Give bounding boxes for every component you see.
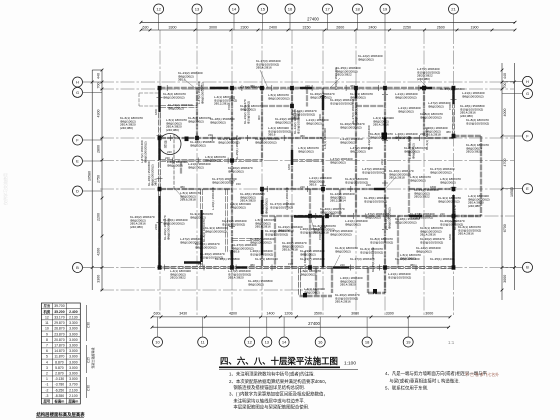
svg-text:3.000: 3.000: [69, 349, 78, 353]
svg-text:4000: 4000: [503, 109, 507, 117]
svg-text:Φ8@100(2): Φ8@100(2): [248, 282, 264, 286]
svg-text:2800: 2800: [97, 145, 101, 153]
svg-text:380: 380: [180, 185, 185, 189]
svg-text:2Φ14;3Φ20: 2Φ14;3Φ20: [228, 276, 244, 280]
svg-text:380: 380: [300, 134, 305, 138]
svg-text:机房: 机房: [44, 309, 51, 314]
svg-text:Φ8@100(2): Φ8@100(2): [188, 119, 204, 123]
svg-text:1200: 1200: [284, 312, 292, 316]
wire shear wall thick segments: [160, 88, 454, 268]
svg-text:440: 440: [97, 73, 101, 79]
svg-text:(240;380): (240;380): [120, 126, 133, 130]
svg-text:Φ8@100(2): Φ8@100(2): [188, 165, 204, 169]
svg-text:3000: 3000: [425, 312, 433, 316]
svg-text:钢筋连接及搭接锚固详见结构总说明.: 钢筋连接及搭接锚固详见结构总说明.: [229, 384, 305, 391]
wire building outline walls: [159, 87, 482, 268]
svg-text:2400: 2400: [154, 223, 158, 230]
svg-text:14: 14: [282, 339, 287, 344]
svg-text:11: 11: [201, 339, 206, 344]
svg-text:Φ8@200(2): Φ8@200(2): [190, 215, 206, 219]
svg-text:Φ8@100/200(2): Φ8@100/200(2): [395, 95, 417, 99]
svg-text:Φ8@100(2): Φ8@100(2): [330, 160, 346, 164]
svg-text:Φ8@100/200(2): Φ8@100/200(2): [268, 96, 290, 100]
svg-text:Φ8@200(2): Φ8@200(2): [275, 120, 291, 124]
svg-text:KL-35(1) 180X400: KL-35(1) 180X400: [430, 257, 455, 261]
svg-text:Φ10@100/200(2): Φ10@100/200(2): [246, 101, 250, 124]
svg-text:KL-6(1) 180X470: KL-6(1) 180X470: [425, 127, 429, 150]
svg-text:Φ8@100/200(2): Φ8@100/200(2): [166, 218, 170, 240]
svg-text:240: 240: [420, 132, 425, 136]
node detail callout circle: [159, 134, 189, 190]
svg-text:13: 13: [195, 6, 200, 11]
svg-text:3.000: 3.000: [69, 338, 78, 342]
svg-text:Φ10@100/200(2): Φ10@100/200(2): [345, 180, 368, 184]
svg-text:3.000: 3.000: [69, 327, 78, 331]
svg-text:1800: 1800: [448, 233, 452, 240]
svg-text:3.000: 3.000: [69, 332, 78, 336]
svg-text:Φ8@200(2): Φ8@200(2): [168, 106, 184, 110]
svg-text:L-30(1) 180X400: L-30(1) 180X400: [334, 67, 338, 90]
svg-text:-2: -2: [45, 388, 48, 392]
svg-text:27400: 27400: [308, 321, 320, 326]
svg-text:E: E: [526, 186, 529, 191]
svg-text:240: 240: [366, 183, 371, 187]
svg-text:(240;380): (240;380): [130, 225, 143, 229]
svg-text:Φ8@100(2): Φ8@100(2): [370, 135, 386, 139]
svg-text:Φ8@200(2): Φ8@200(2): [440, 180, 456, 184]
svg-text:Φ10@100/200(2): Φ10@100/200(2): [296, 111, 300, 134]
node column blobs: [158, 86, 456, 298]
svg-text:19: 19: [406, 339, 411, 344]
svg-text:Φ8@100(2): Φ8@100(2): [167, 163, 183, 167]
svg-text:150: 150: [236, 182, 241, 186]
svg-text:Φ8@100/200(2): Φ8@100/200(2): [395, 220, 417, 224]
svg-text:1500: 1500: [227, 103, 231, 110]
svg-text:2250: 2250: [403, 25, 411, 29]
svg-text:2Φ14;3Φ20: 2Φ14;3Φ20: [340, 283, 356, 287]
svg-text:16: 16: [288, 6, 293, 11]
svg-text:3.000: 3.000: [69, 377, 78, 381]
svg-text:Φ8@100/200(2): Φ8@100/200(2): [462, 94, 484, 98]
svg-text:5.870: 5.870: [55, 366, 64, 370]
node right overall dimension 10580: [510, 63, 516, 290]
svg-text:1800: 1800: [154, 108, 158, 115]
svg-text:B: B: [526, 265, 529, 270]
node bottom overall dimension 27400: [151, 321, 450, 329]
svg-text:16: 16: [318, 339, 323, 344]
svg-text:8: 8: [46, 338, 48, 342]
svg-text:1、未注明顶梁跨数均有中括号(或者)的注指.: 1、未注明顶梁跨数均有中括号(或者)的注指.: [229, 370, 315, 377]
svg-text:Φ8@100(2): Φ8@100(2): [411, 143, 415, 159]
svg-text:1900: 1900: [471, 25, 479, 29]
svg-text:17: 17: [325, 6, 330, 11]
svg-text:1800: 1800: [430, 185, 437, 189]
svg-text:Φ10@100/200(2): Φ10@100/200(2): [370, 240, 393, 244]
svg-text:6700: 6700: [503, 224, 507, 232]
svg-text:-6.250: -6.250: [55, 388, 65, 392]
svg-text:3300: 3300: [97, 275, 101, 283]
svg-text:1500: 1500: [318, 233, 322, 240]
svg-text:1:1: 1:1: [448, 340, 455, 345]
node beam annotation text clusters: [120, 54, 490, 304]
svg-text:Φ10@100/200(2): Φ10@100/200(2): [222, 222, 245, 226]
svg-text:5: 5: [46, 355, 48, 359]
svg-text:150: 150: [198, 262, 203, 266]
node top overall dimension 27400: [140, 16, 517, 23]
svg-text:KL-9(1) 180X470: KL-9(1) 180X470: [255, 257, 278, 261]
svg-text:C30: C30: [87, 385, 91, 391]
svg-text:380: 380: [446, 130, 451, 134]
svg-text:2600: 2600: [437, 25, 445, 29]
svg-text:2400: 2400: [318, 113, 322, 120]
svg-text:KL-8(2) 180X470: KL-8(2) 180X470: [202, 219, 206, 242]
svg-text:Φ8@100(2): Φ8@100(2): [190, 143, 206, 147]
svg-text:13: 13: [265, 339, 270, 344]
node left axis circles: [73, 77, 103, 273]
svg-text:Φ10@100/200(2): Φ10@100/200(2): [250, 252, 273, 256]
svg-text:Φ8@100/200(2): Φ8@100/200(2): [430, 170, 452, 174]
svg-text:9: 9: [46, 332, 48, 336]
node notes right column: [385, 370, 499, 391]
svg-text:G: G: [76, 90, 79, 95]
svg-text:2Φ20;3Φ22: 2Φ20;3Φ22: [466, 150, 482, 154]
svg-text:Φ8@200(2): Φ8@200(2): [278, 228, 294, 232]
node top axis circles: [154, 4, 459, 30]
svg-text:2Φ16;2Φ18: 2Φ16;2Φ18: [389, 176, 405, 180]
svg-text:240: 240: [165, 156, 170, 160]
svg-text:2Φ20;3Φ22: 2Φ20;3Φ22: [414, 195, 430, 199]
svg-text:2、本次梁配筋依据电算结果并满足构造要求d050，: 2、本次梁配筋依据电算结果并满足构造要求d050，: [229, 378, 329, 385]
svg-text:Φ8@200(2): Φ8@200(2): [410, 178, 426, 182]
svg-text:(240;380): (240;380): [166, 128, 179, 132]
svg-text:11.870: 11.870: [54, 355, 64, 359]
svg-text:(240;380): (240;380): [468, 204, 481, 208]
svg-text:-3: -3: [45, 394, 48, 398]
svg-text:L-30(1) 180X400: L-30(1) 180X400: [285, 187, 289, 210]
svg-text:2Φ14;2Φ16: 2Φ14;2Φ16: [335, 300, 351, 304]
node top chain dimension line: [140, 25, 517, 31]
svg-text:3.000: 3.000: [69, 343, 78, 347]
svg-text:4300: 4300: [97, 110, 101, 118]
node right axis circles: [502, 76, 533, 272]
svg-text:1400: 1400: [267, 312, 275, 316]
svg-text:Φ8@100(2): Φ8@100(2): [398, 109, 414, 113]
svg-text:3300: 3300: [169, 25, 177, 29]
svg-text:240: 240: [305, 84, 310, 88]
svg-text:-8.350: -8.350: [55, 394, 65, 398]
svg-text:Φ10@100/200(2): Φ10@100/200(2): [362, 170, 385, 174]
svg-text:18: 18: [365, 339, 370, 344]
svg-text:Φ8@200(2): Φ8@200(2): [428, 104, 444, 108]
svg-text:4: 4: [46, 360, 48, 364]
svg-text:KL-23(2) 180X400: KL-23(2) 180X400: [367, 125, 371, 150]
svg-text:3.000: 3.000: [69, 360, 78, 364]
node floor elevation table: [41, 303, 95, 404]
svg-text:Φ8@200(2): Φ8@200(2): [340, 140, 356, 144]
svg-text:240: 240: [167, 150, 172, 154]
svg-text:H: H: [76, 79, 79, 84]
svg-text:本层梁配筋图应与栔梁配筋图配合使用.: 本层梁配筋图应与栔梁配筋图配合使用.: [229, 404, 309, 411]
svg-text:27400: 27400: [307, 16, 319, 21]
svg-text:1:100: 1:100: [344, 361, 356, 367]
svg-text:33.170: 33.170: [54, 315, 64, 319]
svg-text:L-4(1) 180X400: L-4(1) 180X400: [303, 251, 307, 272]
svg-text:Φ8@100/200(2): Φ8@100/200(2): [195, 245, 217, 249]
svg-text:19: 19: [383, 6, 388, 11]
svg-text:10: 10: [45, 327, 49, 331]
svg-text:20.870: 20.870: [54, 338, 64, 342]
svg-text:G: G: [526, 91, 529, 96]
svg-text:平·己·合 多飞七名外: 平·己·合 多飞七名外: [465, 372, 499, 377]
svg-text:2400: 2400: [269, 25, 277, 29]
svg-text:2: 2: [46, 372, 48, 376]
svg-text:台: 台: [164, 139, 167, 144]
node right chain dimension line: [501, 63, 507, 300]
svg-text:700: 700: [97, 83, 101, 89]
svg-text:Φ8@100/200(2): Φ8@100/200(2): [340, 125, 362, 129]
svg-text:E: E: [76, 158, 79, 163]
svg-text:3000: 3000: [209, 25, 217, 29]
svg-text:2600: 2600: [336, 25, 344, 29]
svg-text:2.100: 2.100: [69, 388, 78, 392]
svg-text:Φ8@100/200(2): Φ8@100/200(2): [250, 240, 272, 244]
svg-text:F: F: [76, 137, 79, 142]
svg-text:3: 3: [46, 366, 48, 370]
svg-text:C30: C30: [87, 322, 91, 328]
svg-text:Φ8@200(2): Φ8@200(2): [350, 149, 366, 153]
node left overall dimension 10580: [88, 70, 102, 290]
svg-text:L-30(1) 180X400: L-30(1) 180X400: [211, 187, 215, 210]
svg-text:900: 900: [257, 115, 261, 120]
svg-text:Φ8@200(2): Φ8@200(2): [335, 249, 351, 253]
node notes left column: [229, 370, 329, 410]
svg-text:四、六、八、十层梁平法施工图: 四、六、八、十层梁平法施工图: [220, 355, 338, 366]
svg-text:标高m: 标高m: [54, 399, 65, 404]
svg-text:Φ8@100/200(2): Φ8@100/200(2): [205, 229, 227, 233]
svg-text:380: 380: [330, 212, 335, 216]
svg-text:11: 11: [45, 321, 49, 325]
svg-text:23.870: 23.870: [54, 332, 64, 336]
svg-text:2Φ14;2Φ16: 2Φ14;2Φ16: [256, 66, 272, 70]
svg-text:3150: 3150: [303, 25, 311, 29]
svg-text:1800: 1800: [287, 163, 291, 170]
svg-text:4700: 4700: [503, 159, 507, 167]
svg-text:150: 150: [288, 262, 293, 266]
svg-text:层号: 层号: [43, 399, 51, 404]
svg-text:2.100: 2.100: [69, 394, 78, 398]
wire vertical grid axis lines: [160, 30, 454, 317]
svg-text:7: 7: [46, 343, 48, 347]
svg-text:3.000: 3.000: [69, 355, 78, 359]
svg-text:L-4(1) 180X400: L-4(1) 180X400: [323, 128, 327, 149]
svg-text:15: 15: [260, 6, 265, 11]
svg-text:KL-35(1) 180X400: KL-35(1) 180X400: [235, 135, 239, 160]
svg-text:240: 240: [300, 185, 305, 189]
wire horizontal grid axis lines: [100, 82, 514, 290]
svg-text:仅供学习交流使用: 仅供学习交流使用: [2, 173, 8, 205]
svg-text:Φ10@100/200(2): Φ10@100/200(2): [270, 205, 293, 209]
svg-text:Φ8@200(2): Φ8@200(2): [264, 198, 268, 214]
svg-text:Φ8@200(2): Φ8@200(2): [365, 215, 381, 219]
svg-text:KL-18(1) 350X800: KL-18(1) 350X800: [215, 257, 240, 261]
svg-text:12: 12: [247, 339, 252, 344]
svg-text:3.000: 3.000: [69, 372, 78, 376]
svg-text:3000: 3000: [503, 275, 507, 283]
svg-text:12: 12: [156, 6, 161, 11]
svg-text:Φ8@100/200(2): Φ8@100/200(2): [200, 82, 204, 104]
svg-text:630: 630: [143, 25, 149, 29]
svg-text:3300: 3300: [386, 312, 394, 316]
svg-text:4200: 4200: [229, 312, 237, 316]
svg-text:240: 240: [440, 212, 445, 216]
svg-text:-0.130: -0.130: [55, 377, 65, 381]
svg-text:21: 21: [451, 6, 456, 11]
svg-text:700: 700: [503, 83, 507, 89]
svg-text:3.000: 3.000: [69, 366, 78, 370]
svg-text:未注明梁均以轴线居中或与柱边齐平.: 未注明梁均以轴线居中或与柱边齐平.: [229, 398, 305, 405]
svg-text:Φ8@100/200(2): Φ8@100/200(2): [255, 140, 277, 144]
svg-text:KL-35(1) 180X400: KL-35(1) 180X400: [371, 247, 375, 272]
svg-text:Φ10@100/200(2): Φ10@100/200(2): [410, 215, 433, 219]
svg-text:2300: 2300: [241, 25, 249, 29]
svg-text:2Φ14;2Φ16: 2Φ14;2Φ16: [255, 225, 271, 229]
svg-text:Φ10@100/200(2): Φ10@100/200(2): [364, 199, 387, 203]
svg-text:2Φ12;2Φ14: 2Φ12;2Φ14: [330, 199, 346, 203]
svg-text:10580: 10580: [88, 171, 92, 181]
svg-text:1: 1: [46, 377, 48, 381]
svg-text:B: B: [76, 265, 79, 270]
svg-text:2Φ16;2Φ18: 2Φ16;2Φ18: [180, 198, 196, 202]
svg-text:2.870: 2.870: [55, 372, 64, 376]
svg-text:3000: 3000: [351, 312, 359, 316]
svg-text:Φ8@200(2): Φ8@200(2): [350, 95, 366, 99]
svg-text:440: 440: [503, 73, 507, 79]
svg-text:3.300: 3.300: [69, 321, 78, 325]
svg-text:Φ8@200(2): Φ8@200(2): [304, 290, 320, 294]
svg-text:380: 380: [410, 263, 415, 267]
svg-text:Φ8@100/200(2): Φ8@100/200(2): [163, 95, 185, 99]
svg-text:2400: 2400: [380, 158, 384, 165]
svg-text:35.200: 35.200: [54, 310, 64, 314]
svg-text:Φ8@100(2): Φ8@100(2): [228, 169, 244, 173]
svg-text:3Φ16: 3Φ16: [232, 250, 240, 254]
svg-text:Φ10@100/200(2): Φ10@100/200(2): [440, 222, 463, 226]
svg-text:2Φ14;2Φ16: 2Φ14;2Φ16: [373, 123, 389, 127]
svg-text:Φ8@100/200(2): Φ8@100/200(2): [354, 102, 358, 124]
svg-text:3500: 3500: [314, 312, 322, 316]
svg-text:3Φ16: 3Φ16: [154, 178, 158, 186]
svg-text:29.870: 29.870: [54, 321, 64, 325]
svg-text:Φ8@200(2): Φ8@200(2): [210, 120, 226, 124]
svg-text:3Φ16: 3Φ16: [178, 78, 186, 82]
svg-text:8.870: 8.870: [55, 360, 64, 364]
node small internal dims: [154, 84, 452, 267]
svg-text:3430: 3430: [179, 312, 187, 316]
svg-text:Φ10@100/200(2): Φ10@100/200(2): [330, 101, 353, 105]
svg-text:26.870: 26.870: [54, 327, 64, 331]
svg-text:混凝土强度等级: 混凝土强度等级: [90, 347, 95, 368]
svg-text:2400: 2400: [369, 25, 377, 29]
svg-text:Φ8@100/200(2): Φ8@100/200(2): [420, 115, 442, 119]
svg-text:H: H: [526, 79, 529, 84]
svg-text:Φ8@100/200(2): Φ8@100/200(2): [212, 180, 234, 184]
svg-text:Φ8@200(2): Φ8@200(2): [345, 222, 361, 226]
svg-text:3Φ16: 3Φ16: [268, 133, 276, 137]
svg-text:Φ8@100/200(2): Φ8@100/200(2): [438, 199, 460, 203]
svg-text:1500: 1500: [448, 103, 452, 110]
wire interior beam lines: [139, 88, 454, 297]
svg-text:2.400: 2.400: [69, 310, 78, 314]
svg-text:3Φ16: 3Φ16: [309, 183, 317, 187]
node bottom axis circles: [153, 317, 414, 347]
wire leader lines: [175, 70, 428, 267]
svg-text:12: 12: [45, 315, 49, 319]
svg-text:2Φ20;3Φ22: 2Φ20;3Φ22: [170, 276, 186, 280]
svg-text:Φ8@100/200(2): Φ8@100/200(2): [387, 207, 391, 229]
svg-text:6: 6: [46, 349, 48, 353]
svg-text:2.130: 2.130: [69, 315, 78, 319]
svg-text:D: D: [76, 188, 79, 193]
svg-text:Φ8@100(2): Φ8@100(2): [298, 149, 314, 153]
svg-text:2Φ16;2Φ18: 2Φ16;2Φ18: [282, 248, 298, 252]
svg-text:-1: -1: [45, 383, 48, 387]
svg-text:KL-35(1) 180X400: KL-35(1) 180X400: [440, 87, 465, 91]
svg-text:层高m: 层高m: [67, 399, 78, 404]
svg-text:Φ8@100/200(2): Φ8@100/200(2): [143, 141, 147, 163]
svg-text:2200: 2200: [97, 213, 101, 221]
wire beam stub marks: [157, 85, 457, 271]
node bottom chain dimension line: [151, 312, 452, 319]
svg-text:Φ10@100/200(2): Φ10@100/200(2): [420, 240, 443, 244]
node rotated beam annotations: [140, 67, 457, 272]
svg-text:与梁(或者)垂直相连接时 L 构造做法.: 与梁(或者)垂直相连接时 L 构造做法.: [385, 377, 460, 384]
node drawing title: [219, 355, 358, 369]
svg-text:17.870: 17.870: [54, 343, 64, 347]
svg-text:KL-12(2) 180X400: KL-12(2) 180X400: [395, 257, 420, 261]
svg-text:39.700: 39.700: [54, 304, 64, 308]
svg-text:结构层楼面标高及层高表: 结构层楼面标高及层高表: [36, 411, 85, 418]
svg-text:Φ8@200(2): Φ8@200(2): [230, 205, 246, 209]
svg-text:630: 630: [154, 312, 160, 316]
svg-text:-3.780: -3.780: [55, 383, 65, 387]
node table title: [36, 411, 85, 418]
svg-text:Φ10@100/200(2): Φ10@100/200(2): [466, 121, 489, 125]
svg-text:14.870: 14.870: [54, 349, 64, 353]
svg-text:(240;380): (240;380): [417, 77, 430, 81]
node left chain dimension line: [97, 69, 104, 292]
svg-text:10: 10: [155, 339, 160, 344]
svg-text:2Φ14;2Φ16: 2Φ14;2Φ16: [420, 233, 436, 237]
svg-text:C25: C25: [87, 357, 91, 363]
svg-text:Φ8@100(2): Φ8@100(2): [358, 57, 374, 61]
svg-text:Φ8@100(2): Φ8@100(2): [205, 158, 221, 162]
svg-text:240: 240: [208, 133, 213, 137]
svg-text:Φ10@100/200(2): Φ10@100/200(2): [388, 275, 411, 279]
svg-text:4200: 4200: [97, 248, 101, 256]
svg-text:KL-40(1) 180X470: KL-40(1) 180X470: [453, 205, 457, 230]
svg-text:14: 14: [232, 6, 237, 11]
svg-text:阶: 阶: [164, 144, 168, 149]
svg-text:Φ8@100/200(2): Φ8@100/200(2): [310, 95, 332, 99]
svg-text:Φ8@100/200(2): Φ8@100/200(2): [330, 232, 352, 236]
svg-text:2Φ20;3Φ22: 2Φ20;3Φ22: [336, 73, 352, 77]
svg-text:F: F: [526, 133, 529, 138]
svg-text:Φ10@100/200(2): Φ10@100/200(2): [265, 232, 288, 236]
svg-text:Φ10@100/200(2): Φ10@100/200(2): [300, 230, 323, 234]
svg-text:380: 380: [250, 263, 255, 267]
svg-text:2Φ14;2Φ16: 2Φ14;2Φ16: [458, 232, 474, 236]
svg-text:2750: 2750: [97, 175, 101, 183]
